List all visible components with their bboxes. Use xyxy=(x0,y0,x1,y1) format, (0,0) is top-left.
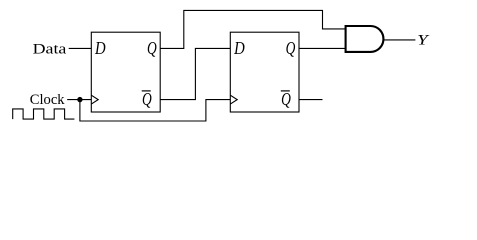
svg-text:Y: Y xyxy=(417,33,430,49)
wire Data to U1 D input xyxy=(69,47,92,49)
svg-text:Q: Q xyxy=(286,38,296,58)
clock input chevron U2 xyxy=(230,95,237,104)
pin label Qbar of U2 xyxy=(281,89,291,109)
wire U1 Qbar to U2 D input xyxy=(160,48,230,99)
AND gate U3 xyxy=(346,26,384,52)
D flip-flop U1 body xyxy=(91,32,160,112)
wire Clock to U1 clock input xyxy=(67,99,91,101)
clock waveform symbol xyxy=(13,109,75,119)
wire U2 Q to AND gate bottom input xyxy=(299,47,346,49)
svg-text:Data: Data xyxy=(33,42,68,58)
svg-text:D: D xyxy=(233,38,245,58)
wire clock node to U2 clock input xyxy=(80,100,230,121)
svg-text:Clock: Clock xyxy=(30,92,66,108)
D flip-flop U2 body xyxy=(230,32,299,112)
wire U3 output to Y xyxy=(384,39,416,41)
svg-text:Q: Q xyxy=(281,89,291,109)
wire U1 Q to AND gate top input xyxy=(160,10,345,48)
svg-text:Q: Q xyxy=(147,38,157,58)
wire U2 Qbar stub xyxy=(299,99,323,101)
clock input chevron U1 xyxy=(91,95,98,104)
svg-text:Q: Q xyxy=(142,89,152,109)
junction dot clock node xyxy=(77,97,82,102)
svg-text:D: D xyxy=(94,38,106,58)
pin label Qbar of U1 xyxy=(142,89,152,109)
